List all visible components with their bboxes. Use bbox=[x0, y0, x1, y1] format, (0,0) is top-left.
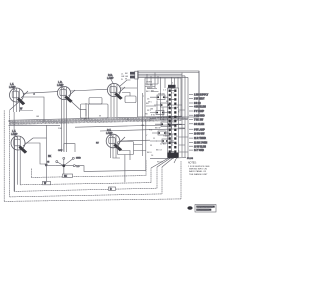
svg-text:OVEN SW: OVEN SW bbox=[160, 119, 170, 121]
selector switch S2 bbox=[161, 103, 170, 107]
svg-text:8 W: 8 W bbox=[151, 114, 155, 116]
svg-text:GN: GN bbox=[36, 116, 40, 118]
relay K1 bbox=[156, 111, 164, 115]
svg-text:2 W NEUT: 2 W NEUT bbox=[194, 99, 205, 101]
svg-text:8 R ELEM: 8 R ELEM bbox=[194, 124, 204, 126]
svg-text:BACK PANEL OF: BACK PANEL OF bbox=[189, 170, 207, 173]
small box mid bbox=[89, 98, 102, 105]
svg-text:BAKE: BAKE bbox=[147, 87, 153, 90]
svg-text:OFF: OFF bbox=[58, 150, 63, 152]
notes text block bbox=[188, 163, 210, 176]
terminal strip TB1 outline bbox=[168, 88, 179, 157]
surface element E5 bbox=[106, 134, 125, 158]
supply cord plug P1 bbox=[130, 71, 138, 79]
fanout diagonals to loops bbox=[151, 158, 177, 168]
svg-text:9 W LAMP: 9 W LAMP bbox=[194, 128, 205, 131]
surface element E3 bbox=[107, 83, 125, 117]
wire E4 right bbox=[25, 138, 52, 167]
wire color legend bbox=[121, 73, 129, 81]
svg-text:BK: BK bbox=[48, 155, 52, 158]
svg-text:TH SW: TH SW bbox=[146, 85, 153, 87]
svg-text:LAMP: LAMP bbox=[11, 133, 18, 136]
control housing box inner bbox=[145, 78, 181, 117]
svg-text:PLUG: PLUG bbox=[157, 162, 163, 164]
svg-text:BU: BU bbox=[166, 101, 169, 103]
bottom loop wire 2 bbox=[20, 168, 151, 185]
svg-text:LAMP: LAMP bbox=[107, 77, 114, 80]
vertical feeders center bbox=[47, 103, 146, 185]
surface element E1 bbox=[10, 88, 29, 112]
svg-text:W: W bbox=[125, 79, 127, 81]
terminal lead labels right column bbox=[189, 95, 209, 153]
svg-text:5 Y LAMP: 5 Y LAMP bbox=[194, 110, 205, 113]
svg-text:W: W bbox=[150, 145, 152, 147]
terminal strip jumpers bbox=[171, 91, 174, 152]
lamp L3 label bbox=[107, 74, 114, 84]
wire E3 to switch box bbox=[120, 80, 138, 96]
svg-text:10 BU SW: 10 BU SW bbox=[194, 134, 205, 136]
switch S6 bbox=[162, 139, 170, 143]
svg-text:W: W bbox=[175, 144, 177, 146]
svg-text:3 R L2: 3 R L2 bbox=[194, 103, 201, 105]
svg-text:6 GN GRD: 6 GN GRD bbox=[194, 115, 205, 117]
svg-text:1 BK SUPPLY: 1 BK SUPPLY bbox=[194, 95, 209, 97]
bottom loop wire 5 bbox=[4, 110, 181, 201]
connector drop C5 to cluster bbox=[113, 141, 158, 160]
cluster vertical wires bbox=[157, 101, 172, 154]
wire E2 to E3 bbox=[71, 89, 109, 116]
plug lead wire bbox=[150, 158, 193, 160]
terminal strip TB1 contacts bbox=[169, 90, 177, 158]
timer switch S5 bbox=[158, 131, 166, 135]
internal top wires bbox=[145, 84, 176, 92]
oven switch S4 bbox=[161, 122, 170, 127]
svg-text:TH SW: TH SW bbox=[158, 94, 165, 96]
svg-text:TIMER: TIMER bbox=[163, 136, 170, 138]
wire E5 right bbox=[96, 140, 150, 182]
thermostat switch S1 bbox=[157, 95, 165, 100]
svg-text:BK: BK bbox=[64, 176, 68, 178]
right bus verticals bbox=[182, 71, 199, 159]
rotary switch frame bbox=[47, 144, 147, 177]
svg-text:11 R TIMER: 11 R TIMER bbox=[194, 138, 206, 140]
svg-text:7 BK SW: 7 BK SW bbox=[194, 120, 204, 122]
svg-text:WIRING DIAGRAM: WIRING DIAGRAM bbox=[197, 206, 214, 209]
supply wires L1 L2 N bbox=[138, 73, 199, 78]
svg-text:14 Y GRD: 14 Y GRD bbox=[194, 149, 204, 152]
cluster interconnect wires bbox=[146, 97, 188, 152]
cluster small labels bbox=[141, 82, 180, 164]
svg-text:LO: LO bbox=[77, 166, 80, 168]
bottom loop wire 1 bbox=[31, 160, 146, 178]
bottom loop wire 3 bbox=[14, 167, 157, 191]
bottom loop wire 4 bbox=[10, 110, 162, 197]
svg-text:12 BU: 12 BU bbox=[160, 144, 166, 146]
svg-text:W: W bbox=[99, 115, 101, 117]
svg-text:THE RANGE UNIT: THE RANGE UNIT bbox=[189, 173, 208, 176]
bus wires middle band bbox=[9, 116, 189, 131]
surface element E4 bbox=[11, 136, 33, 191]
svg-text:GN: GN bbox=[141, 125, 145, 127]
rotary switch S8 hub bbox=[47, 150, 81, 176]
svg-text:MED: MED bbox=[76, 158, 81, 160]
small box left of cluster bbox=[125, 96, 136, 103]
legend part number box bbox=[187, 205, 216, 213]
oven box bbox=[81, 104, 109, 118]
svg-text:PN 316442000: PN 316442000 bbox=[197, 210, 210, 212]
surface element E2 bbox=[57, 86, 75, 152]
svg-text:BU: BU bbox=[172, 121, 175, 123]
svg-text:NOTES:: NOTES: bbox=[188, 163, 197, 165]
svg-text:4 BU ELEM: 4 BU ELEM bbox=[194, 106, 206, 109]
terminal strip bottom connector bbox=[168, 153, 179, 159]
bus verticals left bbox=[13, 112, 15, 191]
lamp L5 label bbox=[106, 129, 113, 137]
box verticals inside control housing bbox=[143, 73, 179, 157]
svg-text:BU: BU bbox=[146, 103, 149, 105]
svg-text:BR: BR bbox=[151, 91, 154, 93]
lamp L4 label bbox=[11, 130, 18, 138]
lamp L2 label bbox=[57, 81, 64, 89]
control housing box outer bbox=[138, 71, 200, 117]
svg-text:BK W: BK W bbox=[155, 127, 160, 129]
lamp L1 label bbox=[9, 83, 16, 91]
svg-text:BK 13: BK 13 bbox=[156, 149, 163, 151]
svg-text:13 W ELEM: 13 W ELEM bbox=[194, 146, 206, 148]
wire E1 to bus bbox=[10, 92, 58, 122]
svg-text:OVEN: OVEN bbox=[146, 82, 152, 84]
wire gauge labels bbox=[36, 115, 129, 130]
svg-text:12 BK OVEN: 12 BK OVEN bbox=[194, 142, 207, 144]
